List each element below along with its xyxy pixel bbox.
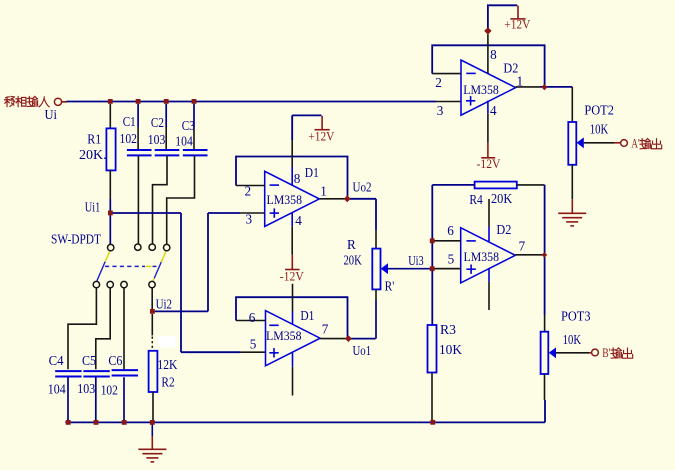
svg-text:D2: D2 [503, 60, 518, 75]
svg-text:5: 5 [250, 336, 257, 351]
svg-text:R3: R3 [440, 322, 456, 337]
svg-text:R': R' [385, 278, 395, 293]
svg-text:20K.: 20K. [79, 147, 107, 162]
svg-text:Uo1: Uo1 [353, 343, 372, 358]
svg-text:Ui: Ui [45, 107, 58, 122]
svg-text:B': B' [602, 346, 610, 360]
svg-text:POT3: POT3 [561, 309, 591, 324]
svg-text:D1: D1 [300, 308, 314, 323]
svg-text:SW-DPDT: SW-DPDT [51, 231, 101, 246]
svg-text:R1: R1 [87, 131, 101, 146]
svg-text:A': A' [631, 137, 639, 151]
svg-text:R4: R4 [469, 192, 483, 207]
svg-text:10K: 10K [590, 122, 609, 137]
svg-text:D1: D1 [305, 165, 319, 180]
svg-text:8: 8 [490, 47, 497, 62]
svg-text:C1: C1 [123, 114, 136, 129]
svg-text:12K: 12K [157, 357, 177, 372]
svg-text:Uo2: Uo2 [353, 180, 372, 195]
svg-text:D2: D2 [496, 222, 511, 237]
svg-text:C4: C4 [49, 353, 64, 368]
svg-text:1: 1 [320, 184, 327, 199]
svg-text:6: 6 [249, 310, 256, 325]
svg-text:R: R [347, 237, 356, 252]
svg-text:Ui1: Ui1 [85, 199, 101, 214]
svg-text:5: 5 [448, 251, 455, 266]
svg-text:-12V: -12V [477, 157, 501, 171]
svg-text:7: 7 [322, 321, 329, 336]
svg-text:104: 104 [48, 382, 66, 397]
svg-text:1: 1 [517, 73, 524, 88]
svg-text:LM358: LM358 [463, 82, 499, 97]
svg-text:8: 8 [294, 171, 301, 186]
svg-text:-12V: -12V [280, 270, 304, 284]
svg-text:10K: 10K [439, 342, 462, 357]
svg-text:C5: C5 [82, 353, 96, 368]
svg-text:+12V: +12V [308, 129, 334, 143]
svg-text:4: 4 [490, 103, 497, 118]
svg-text:20K: 20K [344, 253, 363, 268]
svg-text:10K: 10K [563, 332, 582, 347]
svg-text:LM358: LM358 [464, 249, 500, 264]
svg-text:102: 102 [101, 382, 118, 397]
svg-text:102: 102 [120, 131, 138, 146]
svg-text:3: 3 [437, 103, 444, 118]
svg-text:C6: C6 [108, 353, 122, 368]
svg-text:3: 3 [246, 212, 253, 227]
svg-text:Ui2: Ui2 [156, 296, 172, 311]
svg-text:7: 7 [519, 238, 526, 253]
svg-text:2: 2 [435, 75, 442, 90]
svg-text:4: 4 [295, 213, 302, 228]
svg-text:POT2: POT2 [584, 103, 614, 118]
svg-text:LM358: LM358 [266, 328, 302, 343]
svg-text:2: 2 [245, 184, 252, 199]
svg-text:20K: 20K [491, 191, 513, 206]
svg-text:R2: R2 [161, 375, 174, 390]
svg-text:Ui3: Ui3 [408, 253, 424, 268]
svg-text:6: 6 [447, 223, 454, 238]
svg-text:C2: C2 [151, 115, 164, 130]
svg-text:LM358: LM358 [267, 192, 303, 207]
svg-text:103: 103 [148, 132, 166, 147]
svg-text:104: 104 [175, 133, 193, 148]
svg-text:+12V: +12V [504, 18, 530, 32]
svg-text:103: 103 [77, 381, 95, 396]
svg-text:C3: C3 [182, 118, 195, 133]
